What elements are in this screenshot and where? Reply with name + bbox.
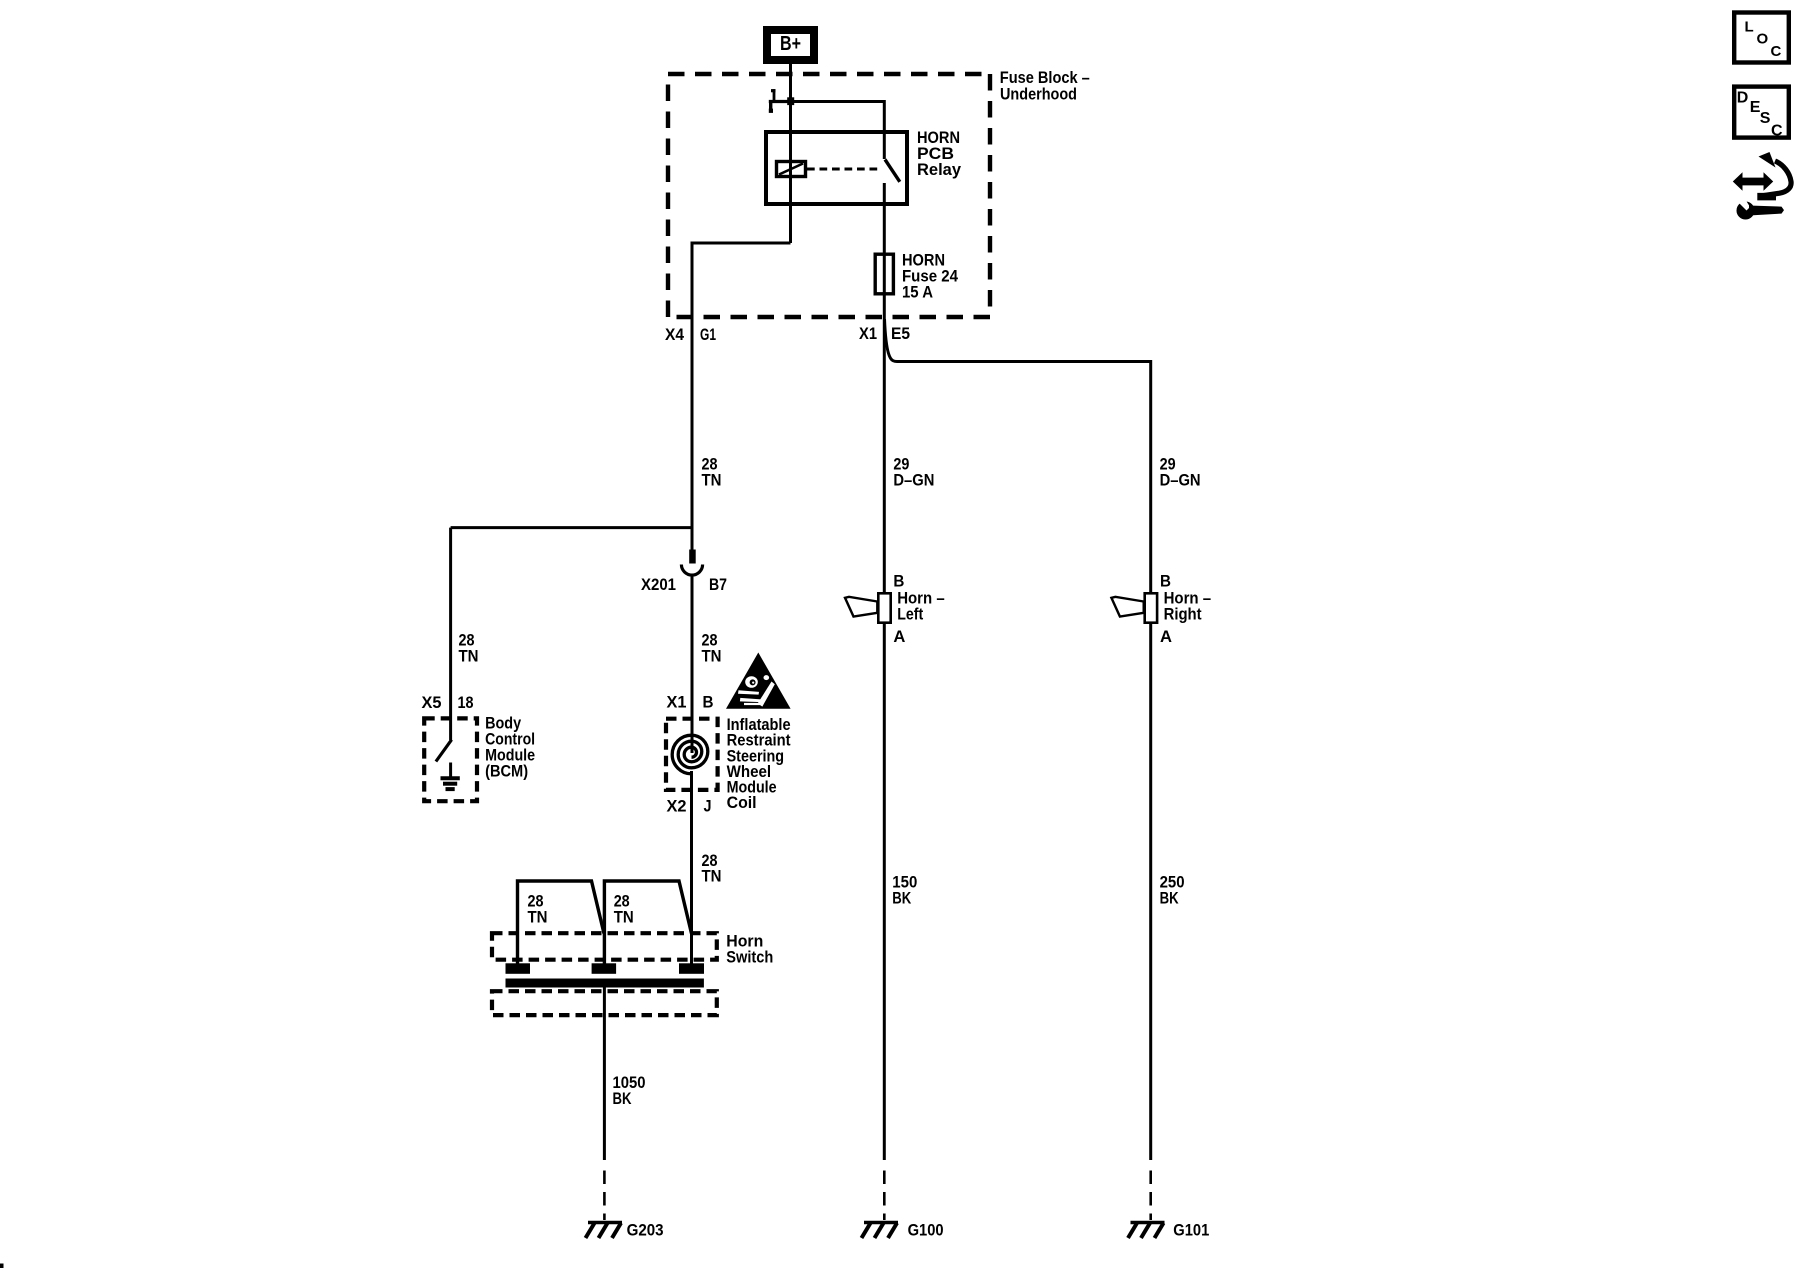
svg-text:Left: Left [897, 605, 923, 624]
page artifact bottom-left [0, 1264, 4, 1269]
horn right connector [1145, 593, 1157, 622]
horn switch contact pad 3 [679, 963, 704, 974]
relay switch arm [885, 160, 900, 182]
label X4 G1 [665, 325, 716, 344]
svg-text:D–GN: D–GN [893, 471, 934, 490]
svg-text:G100: G100 [908, 1221, 944, 1240]
label 29 D-GN left [893, 455, 934, 490]
svg-text:X1: X1 [667, 693, 687, 712]
svg-text:O: O [1757, 31, 1769, 48]
fuse HORN Fuse 24 15A [875, 251, 958, 302]
svg-text:TN: TN [528, 908, 548, 927]
junction [787, 97, 794, 105]
svg-text:D: D [1737, 89, 1749, 106]
label X2 J [667, 797, 712, 816]
svg-text:X5: X5 [422, 693, 442, 712]
label X201 B7 [641, 575, 727, 594]
label Inflatable Restraint Steering Wheel Module Coil [727, 715, 791, 812]
horn right icon [1111, 597, 1143, 617]
label 28 TN (flag 2) [614, 892, 634, 927]
relay coil [777, 162, 806, 177]
wire X201 down to coil module [691, 576, 694, 753]
svg-text:B7: B7 [709, 575, 727, 594]
ground G203 [586, 1223, 623, 1239]
svg-text:G101: G101 [1173, 1221, 1209, 1240]
warning triangle airbag [726, 653, 791, 709]
svg-text:G203: G203 [627, 1221, 664, 1240]
icon LOC box [1734, 13, 1789, 63]
svg-text:BK: BK [613, 1089, 633, 1108]
label 28 TN (coil wire) [702, 631, 722, 666]
wire G1 down to X201 [691, 317, 694, 550]
svg-text:TN: TN [702, 471, 722, 490]
svg-text:BK: BK [892, 889, 912, 908]
label 29 D-GN right [1160, 455, 1201, 490]
wire relay switch pin bottom [883, 183, 886, 592]
wire bus to relay switch [791, 102, 885, 131]
svg-text:Switch: Switch [726, 948, 773, 967]
svg-text:X201: X201 [641, 575, 676, 594]
svg-text:15 A: 15 A [902, 283, 933, 302]
dashed wire to G101 [1149, 1171, 1152, 1221]
wire relay coil pin down, jog left to G1 [692, 243, 791, 317]
svg-text:D–GN: D–GN [1160, 471, 1201, 490]
relay HORN PCB Relay [766, 101, 962, 592]
power node B+ [767, 30, 814, 60]
horn switch contact flag 1 [518, 881, 605, 964]
label 28 TN (flag 1) [528, 892, 548, 927]
svg-text:X1: X1 [859, 324, 877, 343]
svg-text:(BCM): (BCM) [485, 762, 528, 781]
svg-text:L: L [1745, 19, 1754, 36]
horn switch common bar [506, 979, 704, 988]
svg-text:Coil: Coil [727, 793, 757, 812]
horn switch contact pad 2 [592, 963, 617, 974]
svg-text:J: J [704, 797, 712, 816]
label 1050 BK [613, 1073, 646, 1108]
svg-text:B: B [703, 693, 714, 712]
icon navigation arrows and wrench [1733, 152, 1791, 220]
horn left icon [845, 597, 877, 617]
svg-text:TN: TN [702, 647, 722, 666]
label Body Control Module (BCM) [485, 713, 535, 780]
svg-text:Right: Right [1164, 605, 1202, 624]
label 28 TN (BCM wire) [459, 631, 479, 666]
label 28 TN (G1 wire) [702, 455, 722, 490]
wire coil module down to horn switch [690, 771, 693, 964]
svg-text:E5: E5 [891, 324, 910, 343]
relay dashed actuator link [807, 168, 882, 171]
svg-text:X4: X4 [665, 325, 684, 344]
horn switch contact flag 2 [604, 881, 691, 964]
svg-text:TN: TN [702, 867, 722, 886]
label 250 BK [1160, 873, 1185, 908]
horn switch dashed box lower [492, 991, 717, 1015]
svg-text:B+: B+ [780, 33, 801, 55]
ground G100 [862, 1223, 899, 1239]
horn switch dashed box upper [492, 933, 717, 960]
svg-text:G1: G1 [700, 325, 716, 344]
wire horn right to ground [1149, 622, 1152, 1160]
svg-text:A: A [1160, 627, 1172, 646]
svg-text:C: C [1771, 43, 1782, 60]
icon DESC box [1734, 87, 1789, 140]
svg-text:18: 18 [458, 693, 474, 712]
ground G101 [1128, 1223, 1165, 1239]
connector X201 terminal [689, 550, 696, 564]
wire horn switch to ground [603, 987, 606, 1160]
label HORN PCB Relay [917, 128, 962, 179]
wire BCM branch horizontal [451, 526, 692, 529]
label X1 B (coil module) [667, 693, 714, 712]
label Horn Switch [726, 932, 773, 967]
wire BCM drop [449, 528, 452, 718]
label X5 18 [422, 693, 474, 712]
svg-text:A: A [893, 627, 905, 646]
label Horn - Left [897, 589, 945, 624]
label 150 BK [892, 873, 917, 908]
BCM internal ground [441, 763, 460, 790]
module BCM dashed box [424, 718, 477, 801]
bus break hook symbol [769, 89, 776, 113]
horn switch contact pad 1 [506, 963, 531, 974]
wire bus stub left [769, 100, 791, 103]
wire relay coil pin top [789, 101, 792, 243]
coil spiral [672, 735, 708, 774]
dashed wire to G100 [883, 1171, 886, 1221]
label X1 E5 [859, 324, 910, 343]
dashed wire to G203 [603, 1171, 606, 1221]
wire branch to horn right [885, 319, 1151, 592]
connector X201 cup [681, 565, 702, 576]
fuse block underhood dashed box [668, 74, 990, 317]
module coil dashed box [666, 719, 718, 790]
svg-text:Underhood: Underhood [1000, 85, 1077, 104]
label Horn - Right [1164, 589, 1212, 624]
wire horn left to ground [883, 622, 886, 1160]
horn left connector [878, 593, 890, 622]
svg-text:X2: X2 [667, 797, 687, 816]
wire B+ stem [789, 64, 792, 102]
svg-text:S: S [1760, 110, 1771, 127]
svg-text:C: C [1771, 122, 1783, 139]
BCM internal switch arm [449, 718, 452, 740]
label 28 TN (lower coil wire) [702, 851, 722, 886]
svg-text:Relay: Relay [917, 160, 962, 179]
svg-text:TN: TN [459, 647, 479, 666]
label Fuse Block - Underhood [1000, 68, 1090, 104]
relay switch pivot wire [883, 130, 886, 159]
svg-text:BK: BK [1160, 889, 1180, 908]
svg-text:TN: TN [614, 908, 634, 927]
